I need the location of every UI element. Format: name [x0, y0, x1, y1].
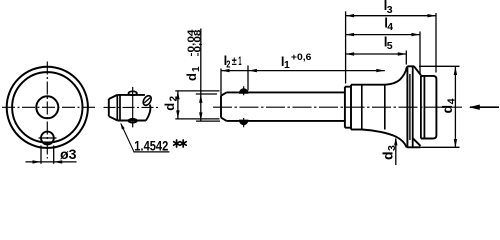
dim ø3 arrows: [33, 160, 63, 163]
dim l5 arrows: [346, 52, 407, 55]
svg-text:d: d: [162, 103, 177, 111]
side view: button left lines: [421, 76, 425, 139]
dim l3/l4/l5 left extension line: [345, 11, 347, 83]
direction arrow shaft: [470, 106, 499, 108]
svg-text:5: 5: [387, 40, 393, 52]
dim l5 right extension: [405, 51, 407, 65]
side view: bottom ball arc: [240, 120, 248, 124]
svg-text:3: 3: [387, 4, 393, 16]
svg-text:2: 2: [169, 96, 180, 102]
svg-text:1.4542: 1.4542: [134, 137, 168, 153]
dim d1 dimension line: [200, 29, 202, 121]
dim l4 dimension line: [346, 34, 420, 36]
dim d4 extension lines: [419, 66, 460, 147]
svg-text:3: 3: [386, 145, 398, 151]
side view: collar right line: [350, 85, 352, 130]
dim d2 extension lines: [175, 91, 219, 119]
svg-text:4: 4: [387, 21, 393, 33]
svg-text:1: 1: [238, 56, 242, 68]
side view: collar face: [344, 87, 346, 128]
dim d4 arrows: [454, 67, 457, 148]
dim l2/l1 shared dimension line: [221, 70, 385, 72]
detail view: ball centerline: [132, 87, 134, 128]
svg-text:d: d: [184, 73, 199, 81]
dim d2 arrows: [176, 91, 179, 119]
dim ø3 dimension line: [26, 161, 77, 163]
svg-text:±: ±: [232, 56, 238, 68]
label d1 with tolerance: [184, 30, 203, 82]
leader line to material label: [121, 124, 134, 152]
dim d4 dimension line: [454, 67, 456, 148]
front view: inner rim circle: [12, 72, 82, 142]
label d2: [162, 96, 180, 111]
dim l2 extension lines: [221, 66, 248, 96]
side view: flange right face: [412, 66, 414, 147]
detail view: top edge: [117, 94, 145, 96]
svg-text:4: 4: [446, 98, 458, 104]
dim d2 dimension line: [177, 91, 179, 119]
dim l3 arrows: [346, 14, 436, 17]
svg-text:1: 1: [191, 66, 202, 72]
side view: top ball arc: [240, 89, 248, 93]
dim l4 right extension: [419, 32, 421, 74]
svg-text:2: 2: [226, 60, 231, 71]
svg-text:d: d: [379, 151, 395, 160]
svg-text:-0,08: -0,08: [193, 30, 203, 57]
svg-text:d: d: [439, 105, 455, 114]
side view: flange bottom shoulder diagonal: [413, 138, 421, 146]
front view horizontal centerline: [2, 106, 97, 108]
dim l5 dimension line: [346, 53, 407, 55]
side view: flange top shoulder diagonal: [414, 67, 421, 76]
svg-text:+0,6: +0,6: [291, 52, 312, 63]
detail view: top ball: [129, 91, 137, 95]
dim l3 dimension line: [346, 15, 436, 17]
label asterisks: [174, 140, 187, 147]
detail view: bottom ball: [129, 119, 137, 123]
side view: flange top edge: [407, 65, 414, 67]
side view: flange left face: [406, 66, 408, 147]
material label underline: [133, 151, 169, 153]
side view: tip face: [220, 96, 222, 118]
front view: ball hole circle: [41, 132, 54, 145]
front view vertical centerline: [46, 62, 48, 159]
detail view: break hatch: [144, 98, 150, 103]
dim l2/l1 arrows: [221, 69, 385, 72]
label d3: [379, 145, 398, 160]
side view: flare contour line: [384, 85, 386, 130]
dim d1 extension lines: [196, 94, 220, 121]
dim d3 line: [395, 139, 397, 165]
dim d1 arrows: [199, 94, 202, 121]
side view: flange mid contour: [409, 74, 411, 140]
detail view: horizontal centerline: [104, 106, 160, 108]
side view: top flare curve: [385, 67, 407, 85]
detail view: vertical edges: [117, 95, 120, 121]
side view: ball center ticks: [243, 86, 245, 127]
front view: outer circle: [7, 67, 88, 148]
side view: button outline: [421, 76, 437, 139]
side view: flange bottom edge: [407, 146, 421, 148]
detail view: break ellipse: [142, 94, 153, 106]
dim l4 arrows: [346, 33, 420, 36]
side view: main centerline: [213, 106, 462, 108]
side view: body bottom edge: [351, 129, 362, 131]
svg-text:1: 1: [284, 59, 290, 71]
side view: bottom flare curve: [362, 130, 407, 148]
direction arrowhead: [469, 105, 480, 110]
detail view: chamfers: [109, 95, 118, 121]
side view: collar edges: [345, 87, 351, 128]
side view: shaft bottom edge: [227, 120, 345, 122]
side view: shaft top edge: [227, 91, 345, 93]
detail view: tip face: [108, 99, 110, 116]
ball hole horizontal tick: [39, 137, 57, 139]
side view: body contour line: [361, 85, 363, 130]
dim ø3 extension lines: [41, 146, 54, 164]
detail view: bottom edge: [117, 120, 146, 122]
front view: center hole: [36, 96, 58, 118]
dim d3 arrow: [394, 137, 397, 146]
label d4: [439, 98, 458, 113]
side view: tip chamfers: [221, 92, 227, 121]
dim l3 right extension: [435, 13, 437, 73]
detail view: break S-curve: [146, 105, 151, 121]
side view: body top edge: [351, 84, 385, 86]
leader arrowhead: [120, 123, 124, 130]
svg-text:ø3: ø3: [60, 146, 77, 162]
